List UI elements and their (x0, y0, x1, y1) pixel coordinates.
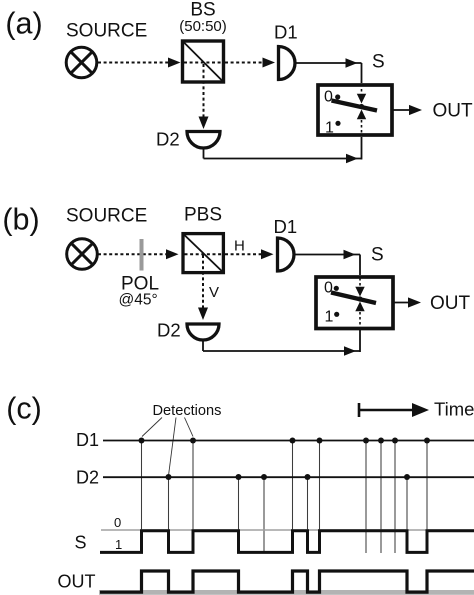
wire D1 to switch (a) (296, 58, 362, 83)
svg-text:S: S (371, 245, 384, 266)
svg-text:D1: D1 (274, 22, 298, 43)
beam splitter BS box (183, 41, 224, 82)
wire D1 to switch (b) (295, 250, 360, 275)
source lamp (b) (67, 239, 98, 270)
source lamp (a) (66, 47, 97, 78)
svg-text:1: 1 (325, 309, 334, 326)
OUT gray baseline bar (99, 590, 474, 595)
svg-text:H: H (234, 238, 245, 255)
svg-text:0: 0 (324, 89, 333, 106)
beam BS to D1 (a) (225, 58, 275, 68)
svg-text:SOURCE: SOURCE (66, 21, 147, 42)
detector D1 (a) (279, 47, 296, 80)
trace OUT waveform (100, 571, 474, 592)
svg-text:@45°: @45° (119, 292, 158, 309)
svg-text:Detections: Detections (153, 403, 222, 419)
svg-text:(50:50): (50:50) (179, 18, 227, 35)
node 0 contact (a) (335, 94, 340, 99)
svg-text:1: 1 (325, 120, 334, 137)
PBS diagonal (184, 235, 222, 272)
beam PBS to D1 (b) (225, 249, 274, 259)
detection dots D2 (166, 474, 411, 480)
node 1 contact (a) (335, 121, 340, 126)
control arrow lower (a) (357, 110, 366, 137)
svg-text:D1: D1 (274, 216, 298, 237)
trace S waveform (100, 531, 474, 553)
svg-text:D2: D2 (76, 468, 99, 488)
node 0 contact (b) (334, 286, 339, 291)
detection pointer lines (142, 418, 193, 475)
S zero level line (101, 529, 474, 531)
detection dots D1 (139, 438, 431, 444)
svg-text:0: 0 (114, 515, 121, 530)
wire OUT (b) (393, 297, 421, 307)
wire D2 to switch (a) (204, 137, 362, 163)
svg-text:S: S (372, 52, 385, 73)
svg-text:D1: D1 (76, 430, 99, 450)
control arrow upper (a) (357, 84, 366, 104)
svg-text:Time: Time (434, 399, 474, 420)
svg-text:(c): (c) (6, 392, 42, 426)
beam PBS to D2 (b) (198, 255, 208, 320)
node 1 contact (b) (334, 312, 339, 317)
svg-text:PBS: PBS (184, 205, 222, 226)
time axis arrow (359, 403, 429, 417)
svg-text:OUT: OUT (58, 571, 96, 591)
polarizing beam splitter PBS box (183, 234, 223, 273)
svg-text:(a): (a) (5, 7, 42, 41)
trace D1 baseline (103, 440, 474, 442)
detector D2 (b) (187, 324, 219, 340)
beam inside BS (184, 62, 222, 64)
svg-text:SOURCE: SOURCE (66, 206, 147, 227)
svg-text:OUT: OUT (433, 101, 474, 122)
svg-text:(b): (b) (2, 203, 39, 237)
svg-text:D2: D2 (156, 129, 180, 150)
detection event verticals (142, 441, 428, 554)
beam source to BS (a) (98, 58, 181, 68)
trace D2 baseline (103, 476, 474, 478)
control arrow lower (b) (355, 302, 364, 328)
svg-text:1: 1 (115, 537, 122, 552)
detector D1 (b) (278, 238, 294, 271)
beam source to PBS (b) (98, 249, 179, 259)
lever pivot dot (a) (359, 104, 364, 109)
wire OUT (a) (393, 105, 422, 115)
svg-text:OUT: OUT (430, 293, 471, 314)
wire D2 to switch (b) (203, 330, 360, 356)
svg-text:D2: D2 (157, 320, 181, 341)
switch lever (a) (332, 101, 378, 111)
svg-text:S: S (75, 533, 87, 553)
BS diagonal (184, 42, 223, 81)
lever pivot dot (b) (357, 296, 362, 301)
switch box (a) (318, 85, 392, 135)
beam BS to D2 (a) (199, 64, 209, 129)
polarizer POL (140, 239, 144, 271)
beam inside PBS (185, 253, 223, 255)
detector D2 (a) (187, 132, 220, 149)
control arrow upper (b) (355, 278, 364, 297)
switch lever (b) (331, 293, 376, 304)
switch box (b) (316, 277, 393, 329)
svg-text:V: V (209, 284, 219, 301)
